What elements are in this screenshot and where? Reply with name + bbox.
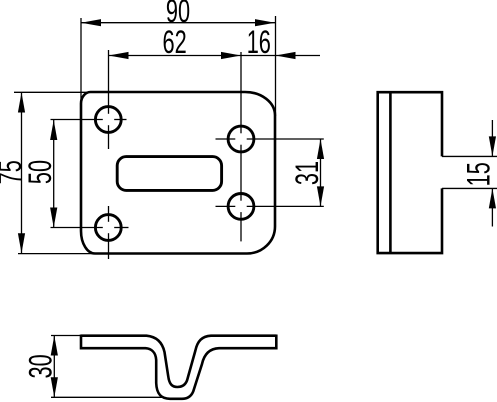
dim line 30 — [53, 336, 55, 398]
dim line 62 — [109, 55, 242, 57]
profile left end cap — [80, 335, 83, 350]
plate outline — [81, 92, 275, 254]
profile bottom boundary — [81, 348, 276, 399]
centerline hole TL vertical / ext 62 left — [108, 50, 110, 114]
arrow 50 bottom — [50, 208, 57, 228]
arrow 62 left — [109, 52, 129, 59]
svg-text:15: 15 — [460, 162, 496, 186]
dim line 75 — [21, 93, 23, 254]
side view outline — [378, 92, 442, 253]
centerline right holes vertical / ext 62 right — [240, 52, 242, 133]
svg-text:31: 31 — [289, 161, 325, 185]
arrow 90 left — [81, 19, 101, 26]
hole top-right — [228, 126, 254, 152]
dim line 90 — [81, 22, 275, 24]
ext line 30 top — [51, 335, 81, 337]
arrow 90 right — [255, 19, 275, 26]
centerline hole BL horizontal — [51, 227, 103, 229]
arrow 50 top — [50, 120, 57, 140]
ext line 90 left — [80, 18, 82, 104]
hole bottom-left — [95, 215, 121, 241]
ext line 90/16 right — [275, 16, 277, 116]
ext line 15 bottom — [442, 187, 497, 189]
arrow 15 lower (pointing up) — [489, 188, 496, 208]
arrow 30 bottom — [51, 377, 58, 397]
side view inner plate line — [389, 92, 392, 253]
ext line 75 bottom — [18, 253, 95, 255]
arrow 31 bottom — [317, 186, 324, 206]
ext line 75 top — [14, 91, 88, 93]
centerline hole BR horizontal / ext 31 bottom — [216, 205, 236, 207]
centerline hole TL horizontal — [51, 119, 103, 121]
dim line 16 tail — [241, 55, 320, 57]
ext line 30 bottom — [51, 396, 162, 398]
dim line 50 — [53, 120, 55, 228]
svg-text:16: 16 — [247, 24, 271, 60]
ext line 15 top — [442, 155, 497, 157]
dim line 15 upper — [491, 120, 493, 156]
arrow 16 right (pointing left) — [276, 52, 296, 59]
svg-text:62: 62 — [162, 24, 186, 60]
svg-text:50: 50 — [22, 160, 58, 184]
profile top boundary — [81, 336, 276, 387]
hole bottom-right — [228, 194, 254, 220]
dim line 15 lower — [491, 188, 493, 226]
arrow 75 bottom — [18, 233, 25, 253]
arrow 30 top — [51, 336, 58, 356]
dim line 31 — [320, 139, 322, 206]
arrow 62 right — [221, 52, 241, 59]
slot — [117, 157, 221, 191]
arrow 31 top — [317, 139, 324, 159]
profile right end cap — [275, 335, 278, 350]
arrow 15 upper (pointing down) — [489, 136, 496, 156]
arrow 75 top — [18, 93, 25, 113]
svg-text:30: 30 — [22, 354, 58, 378]
centerline hole TR horizontal / ext 31 top — [216, 138, 236, 140]
hole top-left — [95, 107, 121, 133]
centerline hole BL vertical — [108, 206, 110, 222]
